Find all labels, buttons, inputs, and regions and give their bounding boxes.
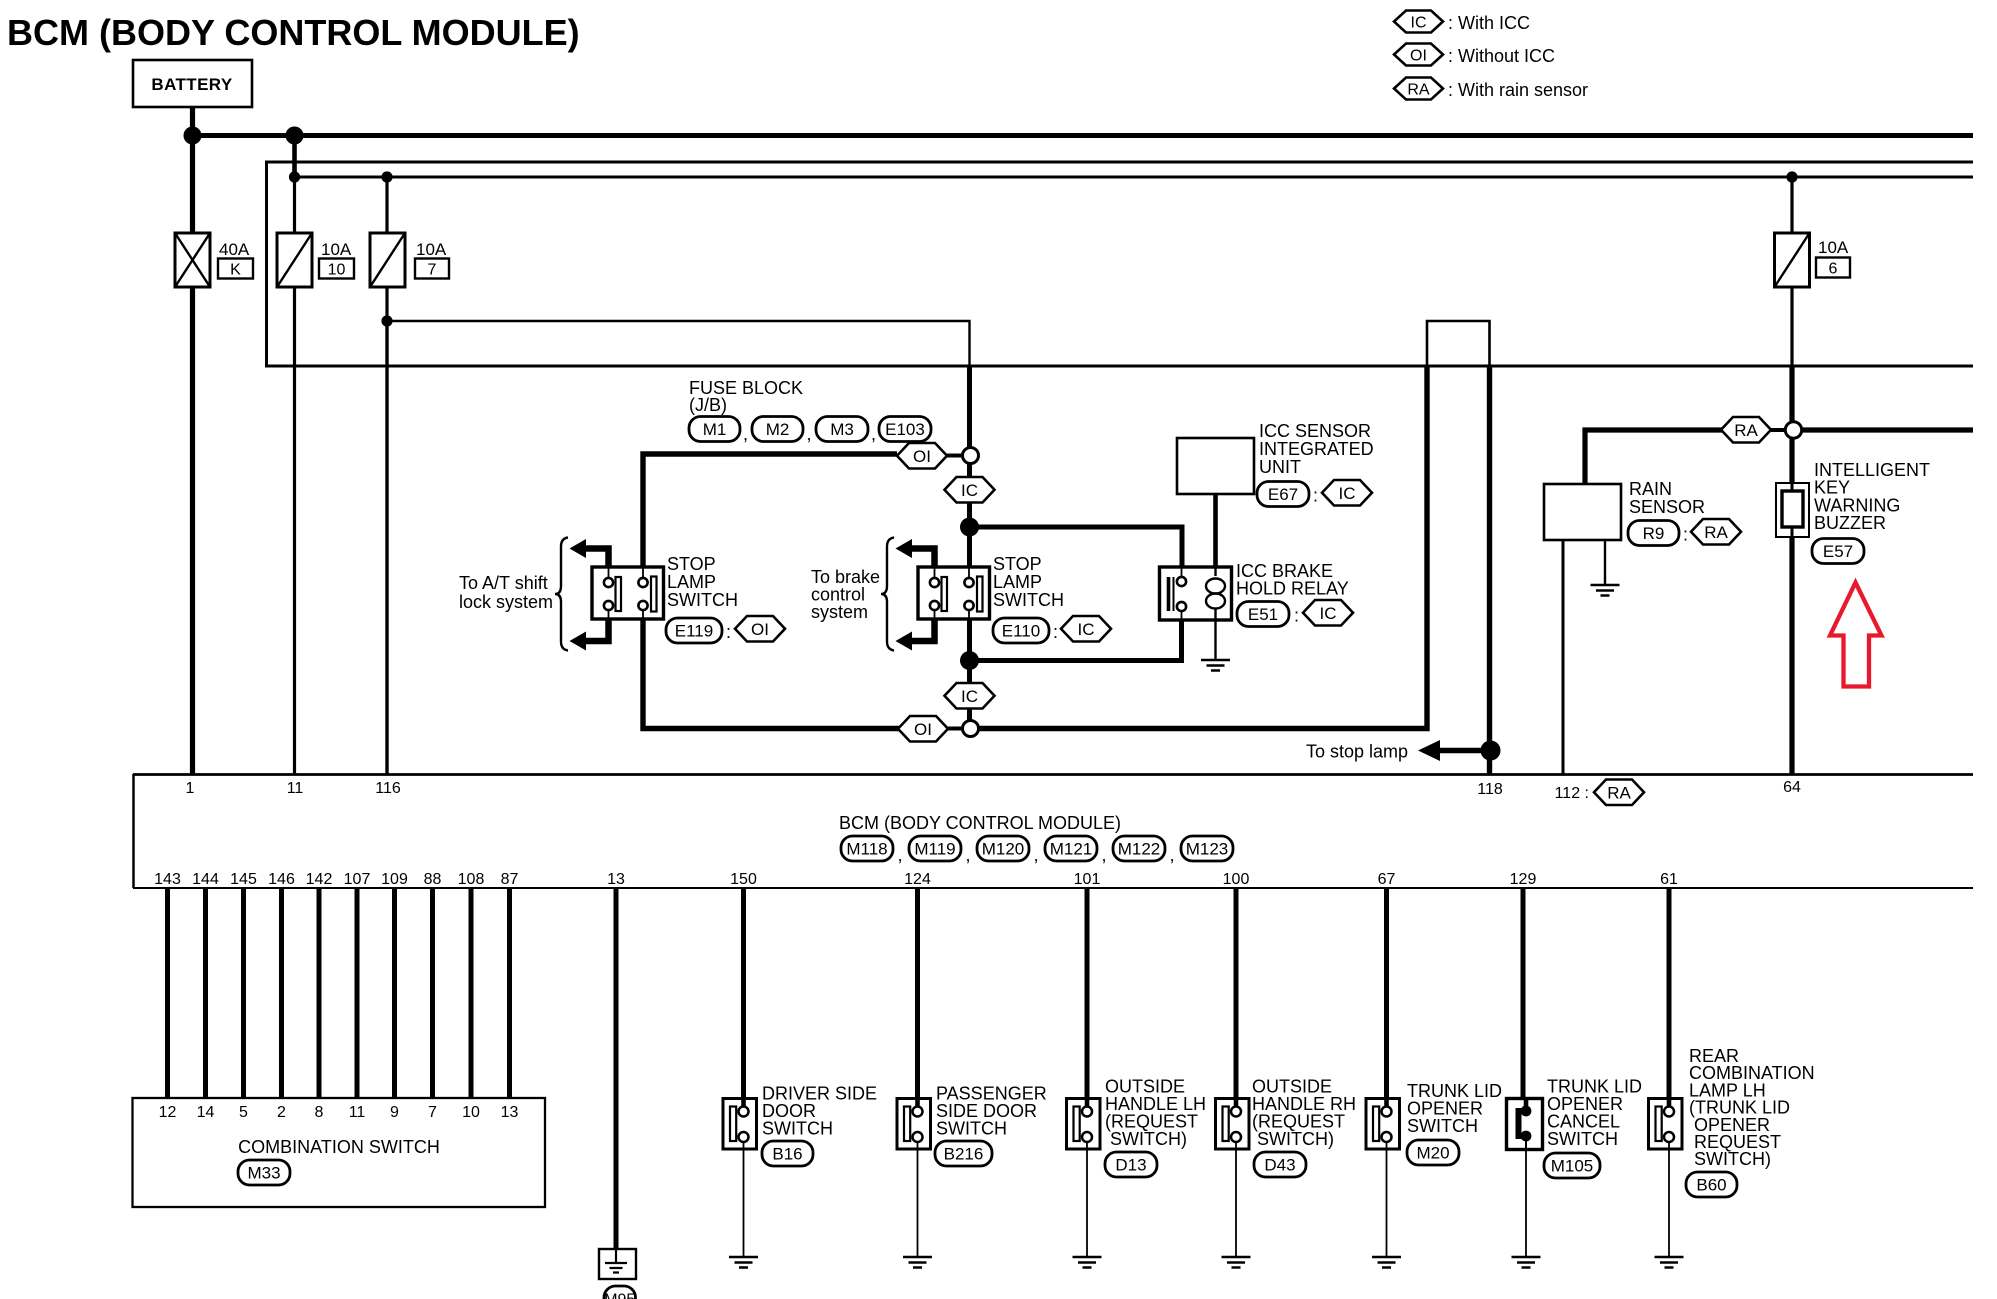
- brace A/T shift lock: [555, 538, 568, 651]
- svg-text:HOLD RELAY: HOLD RELAY: [1236, 579, 1349, 599]
- connector B60: [1686, 1172, 1737, 1197]
- svg-text:SWITCH: SWITCH: [667, 590, 738, 610]
- svg-text::: :: [1294, 606, 1299, 626]
- svg-text:M33: M33: [247, 1164, 280, 1183]
- connector M122: [1113, 836, 1165, 861]
- svg-text:SWITCH: SWITCH: [762, 1119, 833, 1139]
- rear combination lamp trunk lid opener request switch B60: [1649, 1099, 1683, 1150]
- svg-text:88: 88: [424, 871, 442, 888]
- svg-text:12: 12: [159, 1104, 177, 1121]
- svg-text:150: 150: [730, 871, 757, 888]
- arrow to A/T shift (upper): [570, 539, 587, 558]
- svg-text:,: ,: [743, 424, 748, 444]
- hexagon RA (R9): [1691, 519, 1741, 545]
- wire outside handle RH request switch D43 to ground: [1235, 1149, 1237, 1257]
- wire passenger side door switch B216 to ground: [917, 1149, 919, 1257]
- svg-text:STOP: STOP: [993, 554, 1042, 574]
- hexagon RA (rain sensor feed): [1721, 417, 1771, 443]
- wire BCM pin 61 to rear combination lamp B60: [1667, 888, 1672, 1099]
- wire BCM pin 143 to combination switch: [165, 888, 170, 1098]
- svg-text:E110: E110: [1002, 622, 1040, 641]
- wire rain sensor to BCM pin 112: [1562, 540, 1565, 774]
- svg-text:1: 1: [186, 780, 195, 797]
- connector E57: [1812, 539, 1864, 564]
- wire battery to bus: [190, 107, 195, 136]
- hexagon IC (bottom): [945, 683, 995, 709]
- ground (B216): [903, 1257, 932, 1268]
- trunk lid opener switch M20: [1366, 1099, 1400, 1150]
- svg-text:87: 87: [501, 871, 519, 888]
- svg-text:146: 146: [268, 871, 295, 888]
- arrow to brake control (lower): [896, 632, 913, 651]
- wire RA hex to circle link: [1771, 428, 1786, 432]
- BCM (body control module) box: [133, 773, 1973, 776]
- svg-text:2: 2: [277, 1104, 286, 1121]
- svg-text:E103: E103: [885, 420, 925, 439]
- svg-text:OI: OI: [751, 620, 769, 639]
- svg-text:system: system: [811, 602, 868, 622]
- arrow to A/T shift (lower): [570, 632, 587, 651]
- svg-text:10A: 10A: [1818, 238, 1849, 257]
- intelligent key warning buzzer E57: [1776, 483, 1809, 537]
- svg-text:RAIN: RAIN: [1629, 479, 1672, 499]
- svg-text:,: ,: [966, 845, 971, 865]
- wire junction to relay (top): [970, 527, 1183, 567]
- svg-text:D43: D43: [1264, 1156, 1295, 1175]
- svg-text:M105: M105: [1551, 1157, 1594, 1176]
- connector M120: [977, 836, 1029, 861]
- wire BCM pin 145 to combination switch: [241, 888, 246, 1098]
- brace brake control: [881, 538, 894, 651]
- wire RA circle to buzzer: [1789, 438, 1794, 483]
- wire BCM pin 108 to combination switch: [469, 888, 474, 1098]
- svg-text:107: 107: [344, 871, 371, 888]
- svg-text:To stop lamp: To stop lamp: [1306, 742, 1408, 762]
- wire driver side door switch B16 to ground: [743, 1149, 745, 1257]
- junction J/B bus at fuse 6: [1786, 171, 1797, 182]
- svg-text:LAMP: LAMP: [667, 572, 716, 592]
- connector M119: [909, 836, 961, 861]
- wire relay coil to ground: [1214, 620, 1216, 660]
- wire junction to stop lamp switch E110: [967, 527, 972, 567]
- hexagon IC (E51): [1303, 600, 1353, 626]
- svg-text:100: 100: [1223, 871, 1250, 888]
- svg-text:,: ,: [1102, 845, 1107, 865]
- legend OI symbol: [1394, 44, 1443, 66]
- connector B216: [935, 1141, 992, 1166]
- svg-text:IC: IC: [1339, 484, 1356, 503]
- fuse block J/B outline: [267, 162, 1974, 366]
- svg-text:11: 11: [287, 780, 304, 797]
- svg-text:M121: M121: [1050, 840, 1093, 859]
- connector E67: [1257, 482, 1309, 507]
- stop lamp switch E110: [918, 567, 990, 619]
- svg-text:M1: M1: [703, 420, 727, 439]
- svg-text:RA: RA: [1734, 421, 1758, 440]
- outside handle RH request switch D43: [1216, 1099, 1250, 1150]
- wire junction to IC hex (bottom): [967, 661, 972, 684]
- svg-text:124: 124: [904, 871, 931, 888]
- connector E103: [879, 417, 931, 442]
- svg-text:lock system: lock system: [459, 592, 553, 612]
- wire OI bypass lower: [643, 619, 900, 729]
- wire J/B bus to fuse 10: [293, 177, 296, 233]
- svg-text:K: K: [230, 262, 241, 279]
- wire battery to fuse K: [190, 136, 195, 233]
- svg-text:61: 61: [1660, 871, 1678, 888]
- wire BCM to outside handle LH request switch D13: [1085, 888, 1090, 1099]
- driver side door switch B16: [723, 1099, 757, 1150]
- label box 10: [319, 259, 354, 279]
- ground (rain sensor): [1591, 585, 1620, 596]
- svg-text:OI: OI: [913, 447, 931, 466]
- connector M123: [1181, 836, 1233, 861]
- junction stop lamp relay branch (top): [960, 518, 979, 537]
- svg-text:M119: M119: [914, 840, 955, 859]
- hexagon IC (top): [945, 477, 995, 503]
- wire BCM pin 88 to combination switch: [430, 888, 435, 1098]
- svg-text:E51: E51: [1248, 605, 1278, 624]
- svg-text:13: 13: [607, 871, 625, 888]
- svg-text:OI: OI: [914, 720, 932, 739]
- svg-text:10: 10: [462, 1104, 480, 1121]
- wire rain sensor feed: [1585, 430, 1722, 484]
- wire BCM pin 107 to combination switch: [355, 888, 360, 1098]
- legend RA symbol: [1394, 78, 1443, 100]
- wire fuse 7 to BCM pin 116: [385, 321, 388, 774]
- arrow to brake control (upper): [896, 539, 913, 558]
- ground (D13): [1073, 1257, 1102, 1268]
- connector B16: [762, 1141, 813, 1166]
- svg-text:BUZZER: BUZZER: [1814, 513, 1886, 533]
- junction stop lamp relay branch (bottom): [960, 651, 979, 670]
- svg-text:,: ,: [898, 845, 903, 865]
- svg-text:RA: RA: [1704, 523, 1728, 542]
- svg-text:M118: M118: [846, 840, 887, 859]
- connector D43: [1254, 1152, 1306, 1177]
- svg-text:7: 7: [428, 1104, 437, 1121]
- svg-text:5: 5: [239, 1104, 248, 1121]
- svg-text:,: ,: [1170, 845, 1175, 865]
- wire BCM pin 87 to combination switch: [507, 888, 512, 1098]
- svg-text:BCM (BODY CONTROL MODULE): BCM (BODY CONTROL MODULE): [7, 12, 580, 53]
- svg-text:7: 7: [428, 262, 437, 279]
- trunk lid opener cancel switch M105: [1507, 1099, 1543, 1150]
- svg-text:144: 144: [192, 871, 219, 888]
- stop lamp switch E119: [592, 567, 664, 619]
- svg-text:SWITCH): SWITCH): [1689, 1149, 1771, 1169]
- ground (D43): [1222, 1257, 1251, 1268]
- wire J/B bus to fuse 7: [385, 177, 388, 233]
- svg-text:,: ,: [807, 424, 812, 444]
- wire E110 upper-left pin to arrow: [910, 549, 935, 568]
- svg-text:(J/B): (J/B): [689, 395, 727, 415]
- ground box M95: [599, 1249, 636, 1279]
- svg-text:IC: IC: [961, 687, 978, 706]
- wire fuse 6 to RA circle: [1790, 287, 1793, 366]
- svg-text:,: ,: [871, 424, 876, 444]
- svg-text:M122: M122: [1118, 840, 1161, 859]
- svg-text::: :: [1313, 486, 1318, 506]
- svg-text:E67: E67: [1268, 485, 1298, 504]
- red annotation arrow: [1830, 583, 1882, 687]
- wire IC hex to junction: [967, 503, 972, 521]
- svg-text:: Without ICC: : Without ICC: [1448, 46, 1555, 66]
- wire IC hex to circle (bottom): [967, 709, 972, 722]
- svg-text:,: ,: [1034, 845, 1039, 865]
- wire BCM to driver side door switch B16: [741, 888, 746, 1099]
- junction battery bus at fuse 10 branch: [286, 127, 304, 145]
- wire J/B to BCM pin 118: [1487, 366, 1492, 774]
- node open circle top: [963, 448, 979, 464]
- svg-text:SWITCH: SWITCH: [1407, 1116, 1478, 1136]
- hexagon OI (bottom bypass): [898, 716, 948, 742]
- wire E110 lower-left pin to arrow: [910, 619, 935, 641]
- junction J/B bus at fuse 7: [381, 171, 392, 182]
- svg-text::: :: [726, 622, 731, 642]
- svg-text:UNIT: UNIT: [1259, 457, 1301, 477]
- svg-text:ICC SENSOR: ICC SENSOR: [1259, 421, 1371, 441]
- node open circle RA: [1785, 422, 1801, 438]
- svg-text:145: 145: [230, 871, 257, 888]
- fuse 10A 10: [277, 233, 312, 287]
- svg-text:B216: B216: [944, 1145, 984, 1164]
- ground (B60): [1655, 1257, 1684, 1268]
- svg-text:M3: M3: [830, 420, 854, 439]
- svg-text:B16: B16: [772, 1145, 802, 1164]
- svg-text:108: 108: [458, 871, 485, 888]
- wire circle to IC hex: [967, 464, 972, 478]
- wire rain sensor to ground: [1604, 540, 1606, 585]
- wire bus dot to J/B bus: [292, 136, 297, 178]
- svg-text::: :: [1683, 525, 1688, 545]
- label box 6: [1816, 258, 1850, 278]
- wire stop lamp feed below J/B: [967, 366, 972, 448]
- label box K: [218, 259, 253, 279]
- svg-text:M123: M123: [1186, 840, 1229, 859]
- ground (relay coil): [1201, 660, 1230, 671]
- svg-text:COMBINATION SWITCH: COMBINATION SWITCH: [238, 1137, 440, 1157]
- wire B60 to ground: [1668, 1149, 1670, 1257]
- svg-text:R9: R9: [1643, 524, 1665, 543]
- wire circle to loop corner (bottom): [979, 366, 1428, 729]
- junction J/B bus at fuse 10: [289, 171, 300, 182]
- svg-text:SWITCH: SWITCH: [993, 590, 1064, 610]
- svg-text:143: 143: [154, 871, 181, 888]
- wire junction to relay (bottom): [970, 620, 1182, 661]
- svg-text:E57: E57: [1823, 542, 1853, 561]
- fuse 40A K (fusible link): [175, 233, 210, 287]
- wire BCM pin 144 to combination switch: [203, 888, 208, 1098]
- svg-text:SENSOR: SENSOR: [1629, 497, 1705, 517]
- svg-text:IC: IC: [1411, 15, 1427, 32]
- svg-text:INTEGRATED: INTEGRATED: [1259, 439, 1374, 459]
- wire outside handle LH request switch D13 to ground: [1086, 1149, 1088, 1257]
- svg-text:101: 101: [1074, 871, 1101, 888]
- svg-text:112 :: 112 :: [1555, 785, 1589, 802]
- connector M121: [1045, 836, 1097, 861]
- connector R9: [1628, 521, 1679, 546]
- combination switch box: [133, 1098, 546, 1207]
- svg-text:: With rain sensor: : With rain sensor: [1448, 80, 1588, 100]
- connector M33: [238, 1160, 290, 1185]
- legend IC symbol: [1394, 11, 1443, 33]
- svg-text:M95: M95: [604, 1292, 635, 1299]
- wire fuse 7 branch to stop lamp switch column: [387, 321, 970, 366]
- ground (M105): [1512, 1257, 1541, 1268]
- hexagon RA (pin 112): [1594, 780, 1644, 806]
- svg-text:116: 116: [375, 780, 401, 797]
- svg-text:129: 129: [1510, 871, 1537, 888]
- wire E110 to lower junction: [967, 619, 972, 653]
- wire BCM to trunk lid opener switch M20: [1384, 888, 1389, 1099]
- passenger side door switch B216: [897, 1099, 931, 1150]
- svg-text:IC: IC: [1320, 604, 1337, 623]
- wire M105 to ground: [1525, 1150, 1527, 1258]
- hexagon IC (E110): [1061, 616, 1111, 642]
- svg-text:11: 11: [349, 1104, 366, 1121]
- svg-text:RA: RA: [1407, 82, 1430, 99]
- svg-text:14: 14: [197, 1104, 215, 1121]
- wire BCM pin 142 to combination switch: [317, 888, 322, 1098]
- J/B pass-through channel box: [1427, 321, 1490, 366]
- wire OI bypass upper horizontal: [643, 454, 897, 567]
- connector E51: [1237, 602, 1289, 627]
- wire RA circle to right edge: [1802, 427, 1974, 432]
- label box 7: [415, 259, 449, 279]
- connector E110: [993, 618, 1049, 643]
- svg-text:RA: RA: [1607, 783, 1631, 802]
- ground (B16): [729, 1257, 758, 1268]
- fuse 10A 7: [370, 233, 405, 287]
- connector M20: [1407, 1140, 1459, 1165]
- wire main battery bus: [193, 133, 1974, 138]
- svg-text:M20: M20: [1416, 1144, 1449, 1163]
- wire fuse 6 thick below J/B: [1789, 366, 1794, 422]
- svg-text:To A/T shift: To A/T shift: [459, 573, 548, 593]
- wire BCM pin 13 to ground M95: [614, 888, 619, 1250]
- svg-text:40A: 40A: [219, 240, 250, 259]
- svg-text:109: 109: [381, 871, 408, 888]
- wire E119 lower-left pin to arrow: [584, 619, 609, 641]
- fuse block J/B bus: [295, 176, 1974, 179]
- svg-text:BATTERY: BATTERY: [151, 75, 232, 94]
- wire BCM pin 146 to combination switch: [279, 888, 284, 1098]
- svg-text:E119: E119: [675, 622, 713, 641]
- battery: [133, 60, 252, 107]
- wire fuse K to BCM pin 1: [190, 287, 195, 774]
- connector M3: [816, 417, 868, 442]
- svg-text:M2: M2: [766, 420, 790, 439]
- svg-text:SWITCH): SWITCH): [1252, 1129, 1334, 1149]
- connector M2: [752, 417, 803, 442]
- wire fuse 10 to BCM pin 11: [293, 287, 296, 774]
- svg-text:9: 9: [390, 1104, 399, 1121]
- wire ICC sensor to relay coil: [1213, 494, 1218, 567]
- svg-text:SWITCH: SWITCH: [1547, 1129, 1618, 1149]
- wire fuse 7 down to junction: [385, 287, 388, 321]
- connector D13: [1105, 1152, 1157, 1177]
- ICC sensor integrated unit box: [1177, 438, 1254, 494]
- svg-text:6: 6: [1829, 261, 1838, 278]
- svg-text:8: 8: [315, 1104, 324, 1121]
- svg-text:13: 13: [501, 1104, 519, 1121]
- hexagon OI (E119): [735, 616, 785, 642]
- svg-text::: :: [1053, 622, 1058, 642]
- wire to stop lamp arrow: [1437, 748, 1490, 753]
- wire BCM to passenger side door switch B216: [915, 888, 920, 1099]
- svg-text:67: 67: [1378, 871, 1396, 888]
- connector M118: [841, 836, 893, 861]
- svg-text:B60: B60: [1696, 1176, 1726, 1195]
- wire BCM to outside handle RH request switch D43: [1234, 888, 1239, 1099]
- svg-text:OI: OI: [1410, 48, 1427, 65]
- fuse 10A 6: [1775, 233, 1810, 287]
- connector M105: [1544, 1153, 1600, 1178]
- wire J/B bus to fuse 6: [1790, 177, 1793, 233]
- svg-text:10: 10: [328, 262, 346, 279]
- svg-text:IC: IC: [1078, 620, 1095, 639]
- hexagon OI (top bypass): [897, 443, 947, 469]
- svg-text:142: 142: [306, 871, 333, 888]
- wire BCM pin 109 to combination switch: [392, 888, 397, 1098]
- wire BCM pin 129 to trunk lid opener cancel switch M105: [1521, 888, 1526, 1099]
- wire OI hex to circle link (top): [947, 454, 963, 458]
- wire buzzer to BCM pin 64: [1789, 537, 1794, 774]
- connector M95: [604, 1286, 636, 1299]
- svg-text:: With ICC: : With ICC: [1448, 13, 1530, 33]
- rain sensor R9: [1544, 484, 1621, 540]
- arrow to stop lamp: [1418, 740, 1440, 761]
- svg-text:118: 118: [1477, 781, 1503, 798]
- svg-text:SWITCH: SWITCH: [936, 1119, 1007, 1139]
- svg-text:10A: 10A: [321, 240, 352, 259]
- connector M1: [689, 417, 740, 442]
- ICC brake hold relay E51: [1160, 567, 1232, 620]
- node open circle bottom: [963, 721, 979, 737]
- svg-text:10A: 10A: [416, 240, 447, 259]
- svg-text:BCM (BODY CONTROL MODULE): BCM (BODY CONTROL MODULE): [839, 813, 1121, 833]
- svg-text:SWITCH): SWITCH): [1105, 1129, 1187, 1149]
- wire OI hex to circle link (bottom): [948, 727, 963, 731]
- svg-text:STOP: STOP: [667, 554, 716, 574]
- junction battery bus at pin 1: [184, 127, 202, 145]
- svg-text:M120: M120: [982, 840, 1025, 859]
- outside handle LH request switch D13: [1067, 1099, 1101, 1150]
- junction fuse 7 branch: [381, 315, 392, 326]
- ground (M20): [1372, 1257, 1401, 1268]
- svg-text:D13: D13: [1115, 1156, 1146, 1175]
- svg-text:LAMP: LAMP: [993, 572, 1042, 592]
- junction to stop lamp: [1481, 741, 1501, 761]
- hexagon IC (E67): [1322, 480, 1372, 506]
- wire trunk lid opener switch M20 to ground: [1386, 1149, 1388, 1257]
- svg-text:IC: IC: [961, 481, 978, 500]
- svg-text:64: 64: [1783, 779, 1801, 796]
- wire E119 upper-left pin to arrow: [584, 549, 609, 568]
- connector E119: [666, 618, 722, 643]
